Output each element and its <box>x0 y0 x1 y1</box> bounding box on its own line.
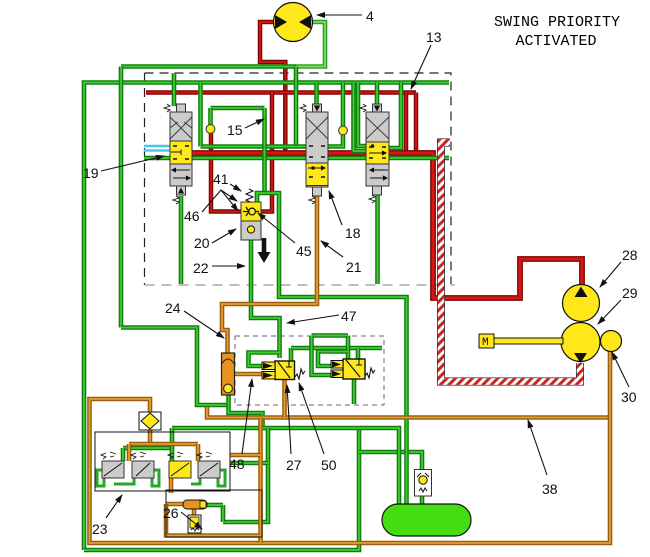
spring 41 <box>246 189 253 202</box>
wire: green valve3 right port <box>389 83 401 149</box>
svg-text:27: 27 <box>286 457 302 473</box>
wire: motor red loop down to valve18 left port <box>260 22 285 153</box>
wire: orange diamond to manifold <box>148 430 153 444</box>
svg-text:13: 13 <box>426 29 442 45</box>
svg-text:26: 26 <box>163 505 179 521</box>
wire: orange accumulator to valve27 <box>235 372 263 377</box>
wire: red legs from header <box>404 93 409 153</box>
wire: cyan pilot lines <box>144 145 170 147</box>
filter diamond <box>139 412 161 430</box>
wire: red main supply to pump 28 <box>192 153 582 298</box>
wire: orange pilot valve3 drain into box26 <box>169 478 174 493</box>
wire: red pilot header y=92.5 <box>146 90 416 95</box>
svg-text:23: 23 <box>92 521 108 537</box>
wire: green valve19 work circuit to pilot area <box>121 328 229 406</box>
wire: orange cluster right link <box>230 453 261 458</box>
svg-text:38: 38 <box>542 481 558 497</box>
wire: red shuttle ball to check valve inlet <box>211 133 241 212</box>
wire: green valve27 top-right to valve50 feeds <box>289 348 294 361</box>
wire: green tank return y=428 <box>172 428 399 504</box>
svg-text:24: 24 <box>165 300 181 316</box>
tank 38 <box>382 504 471 536</box>
accumulator 24 <box>222 353 235 395</box>
svg-text:46: 46 <box>184 208 200 224</box>
wire: green filter to tank <box>420 496 425 504</box>
wire: orange branch to box26 <box>258 418 263 544</box>
wire: green x=121 drop to y=452 <box>119 67 124 328</box>
svg-text:48: 48 <box>229 456 245 472</box>
svg-text:ACTIVATED: ACTIVATED <box>515 33 596 50</box>
wire: green valve19 top pin <box>172 73 177 106</box>
green drain hooks under pilot valves <box>97 470 225 486</box>
hatched drain line <box>441 143 580 382</box>
wire: green header y=64 <box>121 64 296 69</box>
solenoid valve 27 <box>262 361 305 380</box>
wire: green valve19 bottom drain <box>179 196 184 284</box>
svg-text:50: 50 <box>321 457 337 473</box>
svg-text:45: 45 <box>296 243 312 259</box>
wire: orange box26 internals <box>166 502 183 507</box>
svg-text:4: 4 <box>366 8 374 24</box>
wire: green cluster manifold <box>123 446 172 451</box>
motor M and shaft <box>479 334 563 349</box>
wire: orange pump30 down and bottom run <box>90 351 611 543</box>
wire: green cluster right link <box>230 461 268 466</box>
wire: green main work line y=158 <box>144 156 449 161</box>
svg-text:21: 21 <box>346 259 362 275</box>
wire: green branch x=359 to bottom line <box>84 428 359 550</box>
wire: green valve3 left staples <box>354 83 367 152</box>
swing motor 4 <box>274 3 313 42</box>
control valve 19 <box>164 104 192 204</box>
wire: orange main return y=417.5 <box>207 407 610 418</box>
inner dashed box (solenoid valves) <box>235 336 384 405</box>
wire: green motor drop into valve18 left port <box>294 67 299 147</box>
control valve 18 <box>300 104 328 204</box>
wire: green valve18 right port to ball <box>328 135 343 147</box>
svg-text:47: 47 <box>341 308 357 324</box>
wire: green valve3 bottom drain <box>375 195 380 284</box>
wire: orange valve18 bottom to accumulator <box>222 196 317 353</box>
control valve (right of 18) <box>360 104 389 203</box>
svg-text:28: 28 <box>622 247 638 263</box>
svg-text:30: 30 <box>621 389 637 405</box>
svg-text:22: 22 <box>193 260 209 276</box>
pump 28 <box>563 285 600 322</box>
check valve in box 26 <box>188 515 201 533</box>
svg-text:15: 15 <box>227 122 243 138</box>
wire: motor green loop light <box>296 22 325 67</box>
wire: green top header y=82.5 and left drop <box>84 83 449 551</box>
pump 30 <box>601 331 622 352</box>
svg-text:SWING PRIORITY: SWING PRIORITY <box>494 14 620 31</box>
wire: green S-bend to valve27 left port <box>249 353 280 367</box>
solenoid valve 50 <box>331 359 375 379</box>
flow arrow (black, below check valve) <box>258 238 271 263</box>
cylinder in box 26 <box>183 500 207 509</box>
svg-text:18: 18 <box>345 225 361 241</box>
wire: green staple over valve19 ball <box>211 106 265 111</box>
wire: green valve3 top pin <box>375 83 380 113</box>
svg-text:20: 20 <box>194 235 210 251</box>
shuttle ball near valve 18 <box>339 126 348 135</box>
check valve 45 + block 20 <box>241 202 261 240</box>
wire: red check valve outlet riser <box>261 93 272 212</box>
pump 29 <box>561 323 600 364</box>
pilot valves <box>101 452 220 478</box>
wire: green 22/47 line check block to valve27 <box>251 240 280 358</box>
svg-text:29: 29 <box>622 285 638 301</box>
svg-text:M: M <box>482 337 489 349</box>
shuttle ball near valve 19 <box>206 125 215 134</box>
wire: green box26 riser <box>223 428 268 522</box>
main valve group dashed box <box>144 73 146 285</box>
wire: green valve50 bottom <box>352 379 357 404</box>
box 26 <box>166 490 262 537</box>
return filter / relief above tank <box>415 470 432 497</box>
wire: green accumulator bottom to return <box>229 395 263 428</box>
pilot cluster 23 box <box>95 432 230 491</box>
label leader lines <box>101 15 629 529</box>
wire: orange valve27 bottom <box>282 380 287 418</box>
svg-text:19: 19 <box>83 165 99 181</box>
svg-text:41: 41 <box>213 171 229 187</box>
wire: green valve18 top pin from header <box>314 83 319 113</box>
wire: green check valve top to tank line <box>257 193 407 504</box>
